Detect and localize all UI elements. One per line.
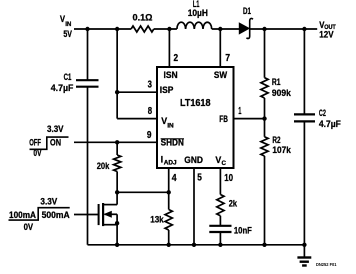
svg-text:R2: R2 (272, 135, 280, 145)
svg-text:10µH: 10µH (188, 8, 209, 18)
svg-text:OFF: OFF (29, 137, 41, 147)
svg-text:FB: FB (219, 114, 228, 124)
svg-text:10nF: 10nF (234, 226, 252, 236)
svg-text:0.1Ω: 0.1Ω (133, 13, 154, 23)
svg-text:ISP: ISP (160, 85, 174, 95)
svg-text:107k: 107k (272, 145, 291, 155)
svg-text:C2: C2 (319, 108, 326, 118)
svg-text:3: 3 (148, 80, 153, 91)
svg-text:7: 7 (225, 53, 230, 64)
svg-text:13k: 13k (150, 214, 164, 224)
svg-text:2: 2 (174, 53, 179, 64)
svg-text:C: C (222, 160, 227, 167)
svg-text:SW: SW (214, 70, 227, 80)
svg-text:10: 10 (224, 173, 233, 184)
svg-text:5V: 5V (63, 29, 72, 39)
svg-text:IN: IN (65, 21, 71, 28)
svg-text:1: 1 (238, 106, 241, 117)
svg-text:500mA: 500mA (42, 210, 70, 220)
svg-text:ISN: ISN (164, 70, 178, 80)
svg-text:3.3V: 3.3V (47, 124, 64, 134)
svg-text:ADJ: ADJ (164, 161, 177, 167)
svg-text:DN252 F01: DN252 F01 (316, 262, 337, 267)
svg-text:ON: ON (50, 137, 61, 147)
svg-text:I: I (161, 154, 164, 164)
svg-text:9: 9 (147, 130, 152, 141)
svg-text:R1: R1 (272, 77, 281, 87)
svg-text:12V: 12V (319, 29, 334, 39)
svg-text:D1: D1 (243, 6, 251, 16)
svg-text:LT1618: LT1618 (180, 98, 211, 109)
svg-text:GND: GND (184, 155, 203, 165)
svg-text:20k: 20k (97, 161, 110, 171)
svg-text:100mA: 100mA (9, 210, 36, 220)
svg-text:909k: 909k (272, 88, 292, 98)
svg-text:0V: 0V (33, 148, 42, 158)
svg-text:3.3V: 3.3V (40, 196, 58, 206)
svg-text:0V: 0V (24, 222, 34, 232)
svg-text:4.7µF: 4.7µF (319, 119, 341, 129)
svg-text:IN: IN (167, 123, 174, 130)
svg-text:2k: 2k (229, 198, 238, 208)
svg-text:4: 4 (172, 173, 177, 184)
svg-text:4.7µF: 4.7µF (51, 83, 74, 93)
svg-text:C1: C1 (64, 72, 72, 82)
svg-text:8: 8 (148, 106, 153, 117)
svg-text:SHDN: SHDN (161, 138, 185, 148)
svg-text:5: 5 (197, 173, 202, 184)
